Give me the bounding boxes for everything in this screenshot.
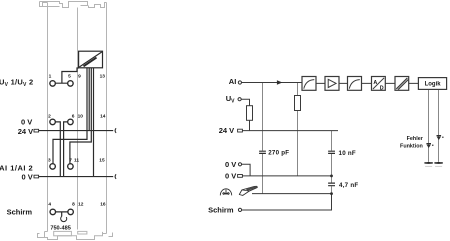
svg-text:15: 15 xyxy=(99,158,105,164)
svg-text:10 nF: 10 nF xyxy=(339,150,356,157)
svg-text:270 pF: 270 pF xyxy=(268,150,289,157)
svg-text:12: 12 xyxy=(78,201,84,207)
svg-text:AI: AI xyxy=(229,77,237,86)
svg-text:9: 9 xyxy=(78,73,81,79)
svg-text:24 V: 24 V xyxy=(219,126,234,135)
svg-text:24 V: 24 V xyxy=(18,127,33,136)
svg-text:10: 10 xyxy=(78,113,84,119)
svg-text:1: 1 xyxy=(49,73,52,79)
svg-text:4: 4 xyxy=(48,201,51,207)
svg-text:D: D xyxy=(380,85,384,91)
svg-text:0 V: 0 V xyxy=(225,172,236,181)
svg-text:6: 6 xyxy=(72,113,75,119)
svg-text:Logik: Logik xyxy=(425,82,442,88)
svg-text:0 V: 0 V xyxy=(22,173,33,182)
svg-text:Schirm: Schirm xyxy=(7,208,33,217)
svg-text:A: A xyxy=(373,80,377,86)
svg-text:Fehler: Fehler xyxy=(407,136,424,142)
svg-text:2: 2 xyxy=(48,113,51,119)
svg-text:3: 3 xyxy=(48,158,51,164)
svg-text:Funktion: Funktion xyxy=(400,144,423,150)
svg-text:14: 14 xyxy=(100,113,106,119)
svg-text:750-485: 750-485 xyxy=(50,225,71,231)
svg-text:7: 7 xyxy=(69,158,72,164)
svg-text:8: 8 xyxy=(72,201,75,207)
svg-text:AI 1/AI 2: AI 1/AI 2 xyxy=(0,163,33,172)
svg-text:0 V: 0 V xyxy=(225,160,236,169)
svg-text:16: 16 xyxy=(100,201,106,207)
svg-text:11: 11 xyxy=(74,158,79,164)
svg-text:0 V: 0 V xyxy=(21,118,32,127)
svg-text:Schirm: Schirm xyxy=(208,206,234,215)
svg-text:13: 13 xyxy=(100,73,106,79)
svg-text:4,7 nF: 4,7 nF xyxy=(339,182,358,189)
svg-text:5: 5 xyxy=(68,73,71,79)
